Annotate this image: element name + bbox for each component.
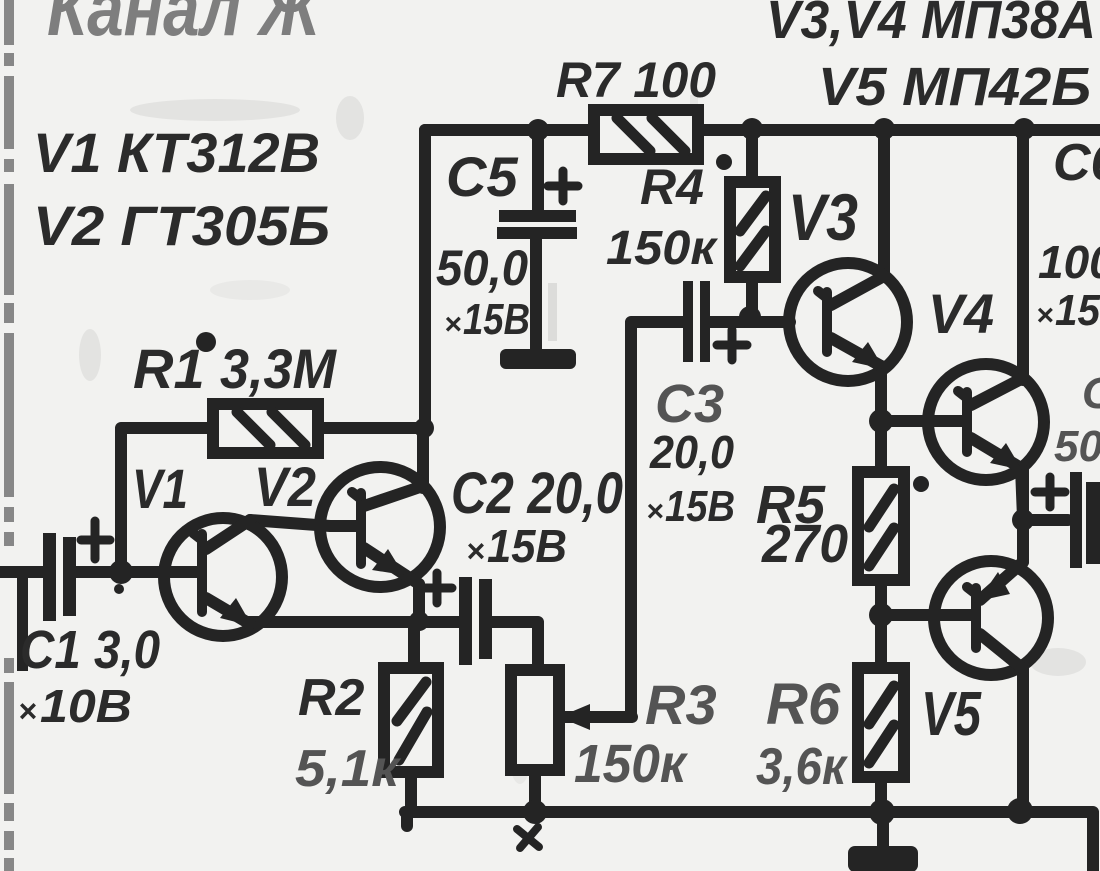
svg-text:150к: 150к — [606, 222, 719, 275]
svg-text:50: 50 — [1054, 422, 1100, 471]
label R1 value — [133, 332, 337, 400]
junction: node A V3 emitter / R5 / V4 base — [869, 409, 893, 433]
wire: battery tap below rail — [877, 812, 889, 846]
capacitor C3 20uF plates — [683, 281, 747, 362]
junction: rail to C5 — [527, 119, 549, 141]
resistor R2 5.1k (vertical) — [384, 668, 438, 772]
svg-text:V3,V4 МП38А: V3,V4 МП38А — [766, 0, 1096, 50]
capacitor C5 50uF plates (vertical) — [497, 171, 578, 239]
svg-text:V4: V4 — [928, 282, 994, 345]
wire: R1 right lead — [316, 422, 425, 434]
svg-text:R6: R6 — [766, 672, 841, 737]
label R4 value — [606, 154, 732, 275]
wire: C5 branch from rail — [532, 130, 544, 212]
svg-text:С5: С5 — [446, 145, 518, 208]
svg-text:С1 3,0: С1 3,0 — [20, 620, 160, 680]
svg-text:R3: R3 — [645, 673, 717, 736]
wire: stub below rail left end — [401, 814, 413, 826]
transistor V2 — [320, 467, 440, 587]
resistor R4 150k (vertical) — [730, 182, 775, 277]
label R2 value — [295, 669, 402, 798]
svg-text:50,0: 50,0 — [436, 240, 528, 296]
svg-text:×: × — [18, 693, 37, 729]
junction: rail to V3 collector — [873, 118, 895, 140]
svg-text:5,1к: 5,1к — [295, 740, 402, 798]
svg-text:20,0: 20,0 — [649, 426, 734, 478]
wire: R3 bottom lead — [529, 768, 541, 812]
junction: V5 collector to ground rail — [1007, 798, 1033, 824]
svg-text:V1: V1 — [132, 457, 188, 520]
capacitor C1 3.0uF plates — [43, 521, 110, 621]
wire: C2 right to R3 top — [491, 622, 538, 672]
label C1 value — [18, 620, 160, 732]
wire: V3 emitter down to node A — [875, 366, 887, 421]
svg-text:×: × — [646, 495, 664, 528]
svg-text:R2: R2 — [298, 669, 365, 727]
wire: V4 collector from rail — [1017, 130, 1029, 380]
junction: R3 to ground rail — [523, 800, 547, 824]
junction: emitters / C2 / R2 node — [409, 611, 429, 631]
resistor R1 3.3M (horizontal) — [213, 404, 318, 453]
label R3 value — [574, 673, 717, 794]
capacitor C7 output plates — [1035, 472, 1100, 568]
resistor R6 3.6k (vertical) — [858, 668, 904, 777]
svg-text:С6: С6 — [1053, 134, 1100, 192]
junction: node B R5 / R6 / V5 base — [869, 603, 893, 627]
label C7 fragment (right edge, cut) — [1054, 369, 1100, 471]
junction: R1 right / V2 collector net — [414, 418, 434, 438]
ground bar under C5 — [500, 349, 576, 369]
wire: R6 leads — [875, 615, 887, 812]
wire: V1 base node up and right to R1 — [121, 428, 215, 572]
svg-text:3,6к: 3,6к — [756, 738, 848, 796]
svg-text:15В: 15В — [487, 520, 567, 572]
transistor V1 — [164, 518, 282, 636]
junction: R6 to ground rail — [869, 799, 895, 825]
svg-text:150к: 150к — [574, 734, 689, 794]
svg-text:R4: R4 — [640, 159, 704, 215]
wire: V3 collector from rail — [878, 130, 890, 276]
svg-text:×: × — [444, 308, 462, 341]
svg-text:×: × — [1036, 299, 1054, 332]
svg-text:V2: V2 — [254, 455, 316, 518]
wire: C1 to V1 base node — [76, 566, 198, 578]
wire: V2 emitter vertical to node — [413, 584, 425, 622]
svg-text:Канал Ж: Канал Ж — [47, 0, 323, 52]
label R6 value — [756, 672, 848, 796]
wire: output node to C7 — [1023, 514, 1068, 526]
junction: rail to R4 — [741, 118, 763, 140]
wire: node B to V5 base — [881, 609, 974, 621]
svg-text:10В: 10В — [40, 680, 132, 732]
svg-text:×: × — [466, 533, 485, 569]
svg-text:15В: 15В — [463, 295, 530, 344]
wire: R2 top lead — [408, 622, 420, 670]
transistor V4 — [928, 364, 1044, 518]
label R5 value — [756, 475, 929, 574]
svg-text:V5: V5 — [921, 680, 982, 749]
capacitor C2 20uF plates — [422, 573, 492, 665]
svg-text:15: 15 — [1055, 286, 1100, 335]
wire: ground bottom rail — [405, 812, 1093, 871]
svg-text:15В: 15В — [665, 482, 735, 531]
transistor V3 — [789, 263, 907, 381]
svg-text:С2 20,0: С2 20,0 — [451, 461, 623, 526]
transistor V5 (PNP) — [934, 561, 1048, 675]
channel boundary dash-dot line — [4, 0, 14, 871]
variable resistor R3 150k (vertical, plain) — [511, 670, 632, 770]
svg-text:С7: С7 — [1082, 369, 1100, 418]
wire: R4 branch from rail down to C3 node — [746, 130, 758, 318]
wire: V1 emitter along to C2 — [247, 616, 459, 628]
svg-text:V2 ГТ305Б: V2 ГТ305Б — [33, 194, 330, 257]
node a mark below R3 ground junction — [517, 827, 539, 848]
svg-text:V1 КТ312В: V1 КТ312В — [33, 121, 320, 184]
svg-text:3,3М: 3,3М — [220, 337, 337, 400]
wire: V4 emitter to output node — [1017, 470, 1029, 520]
wire: top supply rail — [425, 124, 1100, 136]
svg-text:R1: R1 — [133, 337, 205, 400]
battery/ground bar bottom — [848, 846, 918, 871]
wire: V1 collector to V2 base — [250, 520, 358, 526]
wire: left vertical from rail down to R1 junction and V2 collector — [419, 130, 431, 428]
junction: C1 / R1 / V1 base node — [109, 560, 133, 584]
svg-text:100: 100 — [1038, 236, 1100, 288]
label C6 value (right edge, partially cut) — [1036, 134, 1100, 335]
resistor R5 270 (vertical) — [858, 472, 904, 580]
junction: rail to V4 collector — [1013, 118, 1035, 140]
wire: input from left edge to C1 — [0, 566, 44, 578]
svg-text:R7 100: R7 100 — [556, 52, 716, 108]
svg-text:С3: С3 — [655, 374, 724, 434]
wire: R2 bottom lead — [405, 770, 417, 812]
label C3 value — [646, 374, 735, 531]
wire: R5 leads — [875, 421, 887, 615]
junction: R4 / C3 / V3 base node — [739, 306, 761, 328]
svg-text:V3: V3 — [788, 180, 858, 254]
resistor R7 100 (horizontal) — [594, 110, 698, 159]
wire: C3 node horizontal, long vertical to R3 wiper — [560, 322, 683, 717]
svg-text:V5 МП42Б: V5 МП42Б — [818, 57, 1091, 117]
wire: output node down to V5 emitter chevron — [1017, 520, 1029, 562]
junction: output node to C7 — [1012, 509, 1034, 531]
wire: input terminal vertical at left edge — [17, 575, 28, 671]
label C5 value — [436, 145, 530, 344]
label C2 value — [451, 461, 623, 572]
wire: node A to V4 base — [881, 415, 966, 427]
wire: output node down V5 collector to ground rail — [1017, 668, 1029, 812]
svg-text:270: 270 — [761, 514, 848, 574]
